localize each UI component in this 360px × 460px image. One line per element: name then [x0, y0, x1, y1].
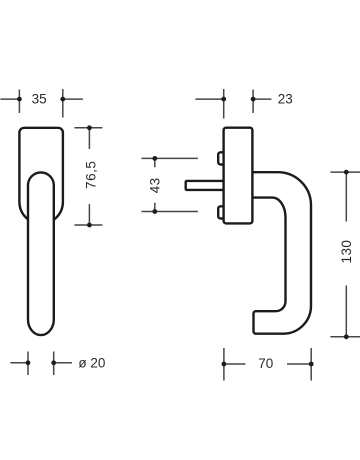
dim 23 dots [221, 97, 226, 102]
handle grip (front view, vertical stadium) [28, 172, 54, 335]
svg-text:130: 130 [339, 240, 354, 264]
dim 43 dots [152, 156, 157, 161]
dim 130 dots [344, 170, 349, 175]
dim 70 lines [224, 348, 311, 381]
dim 35 dots [17, 97, 22, 102]
rosette plate (front view, stadium bottom) [19, 128, 63, 224]
dim 70 dots [222, 362, 227, 367]
svg-text:76,5: 76,5 [84, 161, 99, 189]
dim 76,5 dots [87, 125, 92, 130]
bottom fixing clip [218, 206, 226, 218]
dim 23 lines [195, 89, 271, 119]
rosette plate (side view) [224, 128, 253, 224]
svg-text:43: 43 [147, 177, 162, 193]
dim 43 lines [142, 158, 198, 211]
svg-text:23: 23 [278, 92, 293, 107]
svg-text:ø 20: ø 20 [78, 356, 105, 371]
dim 76,5 lines [74, 128, 102, 225]
spindle (square pin) [186, 181, 224, 190]
dim 35 lines [0, 89, 83, 118]
top fixing clip [218, 152, 226, 164]
dim o20 dots [26, 360, 31, 365]
dim 130 lines [330, 172, 360, 337]
grip arm (side view J-profile) [252, 172, 311, 334]
svg-text:70: 70 [258, 356, 273, 371]
svg-text:35: 35 [32, 92, 47, 107]
dim o20 lines [10, 352, 72, 376]
